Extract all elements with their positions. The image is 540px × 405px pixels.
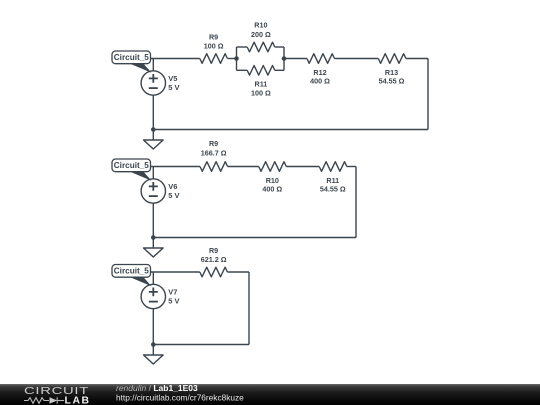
wire V7 bottom to ground node [152,309,154,345]
resistor R10 (circuit 2) [259,162,287,172]
wire R9 to right corner (circuit 3) [227,271,249,273]
svg-text:R9: R9 [209,32,218,41]
svg-text:Circuit_5: Circuit_5 [114,53,149,62]
wire parallel node to R12 [284,58,307,60]
wire parallel left rail [236,47,238,70]
wire bottom branch lead right [275,69,284,71]
svg-text:5 V: 5 V [168,191,179,200]
svg-text:5 V: 5 V [168,297,179,306]
wire right rail circuit 1 [427,59,429,130]
resistor R9 [200,54,228,64]
svg-text:Circuit_5: Circuit_5 [114,161,149,170]
wire R12 to R13 [335,58,379,60]
resistor R9 (circuit 3) [200,267,228,277]
wire bottom rail circuit 3 [153,344,249,346]
wire right rail circuit 2 [355,167,357,238]
node label Circuit_5 (circuit 1) [112,51,152,73]
ground circuit 2 [144,238,164,258]
node junction dot ground circuit 2 [151,235,156,240]
wire source V6 top stub [152,167,154,179]
svg-text:LAB: LAB [65,395,91,405]
wire top branch lead right [275,46,284,48]
resistor R10 [247,42,275,52]
wire parallel right rail [283,47,285,70]
wire source V5 top stub [152,59,154,71]
svg-text:621.2 Ω: 621.2 Ω [201,255,227,264]
wire R9 to R10 (circuit 2) [228,166,259,168]
wire from label box to R9 (circuit 3) [151,271,200,273]
wire R9 to parallel node [227,58,236,60]
footer bar [0,384,540,405]
wire bottom branch lead left [237,69,248,71]
svg-text:200 Ω: 200 Ω [251,30,271,39]
node junction dot ground circuit 3 [151,342,156,347]
wire source V7 top stub [152,272,154,284]
wire right rail circuit 3 [248,272,250,345]
svg-text:100 Ω: 100 Ω [204,41,224,50]
svg-text:5 V: 5 V [168,83,179,92]
resistor R12 [307,54,335,64]
svg-text:166.7 Ω: 166.7 Ω [201,148,227,157]
resistor R11 (circuit 2) [319,162,347,172]
wire R13 to right corner [406,58,428,60]
svg-text:V7: V7 [168,288,177,297]
wire V6 bottom to ground node [152,203,154,237]
voltage source V5 [141,71,165,95]
node label Circuit_5 (circuit 2) [112,159,152,181]
voltage source V6 [141,179,165,203]
voltage source V7 [141,284,165,308]
node label Circuit_5 (circuit 3) [112,265,152,287]
svg-text:V6: V6 [168,182,177,191]
svg-text:54.55 Ω: 54.55 Ω [320,185,346,194]
ground circuit 1 [144,130,164,150]
wire top branch lead left [237,46,248,48]
resistor R13 [378,54,406,64]
wire bottom rail circuit 1 [153,129,428,131]
resistor R9 (circuit 2) [200,162,228,172]
wire from label box to R9 (circuit 2) [151,166,201,168]
svg-text:400 Ω: 400 Ω [262,185,282,194]
node junction dot parallel right [282,56,287,61]
wire R10 to R11 (circuit 2) [286,166,319,168]
node junction dot ground circuit 1 [151,127,156,132]
node junction dot parallel left [234,56,239,61]
svg-text:400 Ω: 400 Ω [310,77,330,86]
svg-text:R9: R9 [209,246,218,255]
wire R11 to right corner (circuit 2) [347,166,356,168]
svg-text:http://circuitlab.com/cr76rekc: http://circuitlab.com/cr76rekc8kuze [116,393,244,403]
svg-text:Circuit_5: Circuit_5 [114,267,149,276]
wire bottom rail circuit 2 [153,237,356,239]
resistor R11 [247,66,275,76]
wire V5 bottom to ground node [152,95,154,129]
svg-text:100 Ω: 100 Ω [251,89,271,98]
svg-text:R11: R11 [255,80,268,89]
svg-text:54.55 Ω: 54.55 Ω [379,77,405,86]
wire from label box to R9 (circuit 1) [151,58,200,60]
ground circuit 3 [144,345,164,365]
logo resistor squiggle and diode [24,397,64,403]
svg-text:V5: V5 [168,74,177,83]
svg-text:R9: R9 [209,139,218,148]
svg-text:rendulin / Lab1_1E03: rendulin / Lab1_1E03 [116,384,198,393]
svg-text:R10: R10 [254,20,267,29]
